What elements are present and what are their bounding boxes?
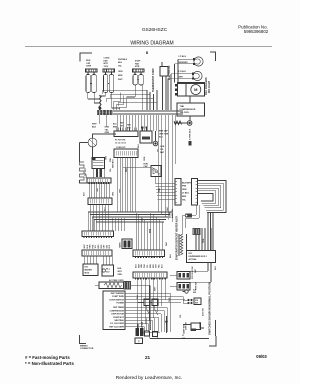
svg-text:ORN: ORN (182, 189, 187, 191)
svg-text:ORN: ORN (169, 297, 171, 302)
svg-text:5995396802: 5995396802 (244, 29, 269, 34)
svg-text:CAP: CAP (86, 62, 91, 65)
svg-text:SW: SW (182, 338, 185, 340)
svg-text:FRZ LIGHT: FRZ LIGHT (209, 80, 211, 93)
svg-text:WHT: WHT (118, 79, 123, 81)
svg-text:DEF THERMO: DEF THERMO (111, 293, 125, 295)
svg-text:GRN: GRN (160, 146, 165, 148)
svg-text:# = Fast-moving Parts: # = Fast-moving Parts (25, 355, 70, 360)
svg-text:09/03: 09/03 (256, 354, 267, 359)
svg-text:TAN: TAN (96, 188, 99, 192)
svg-text:ADAPTIVE DEF: ADAPTIVE DEF (168, 65, 171, 80)
svg-text:MTR: MTR (104, 63, 109, 65)
svg-text:COND: COND (104, 58, 110, 60)
svg-text:POWER: POWER (116, 303, 124, 305)
svg-text:RED: RED (126, 167, 128, 172)
svg-text:BRN: BRN (150, 228, 152, 233)
svg-text:THE: THE (180, 106, 185, 108)
svg-text:ACTUAL: ACTUAL (189, 258, 198, 261)
svg-text:AJAR SW: AJAR SW (171, 209, 174, 218)
svg-text:ORN: ORN (203, 238, 205, 243)
svg-text:NEUTRAL: NEUTRAL (114, 319, 124, 322)
svg-text:COMPRESSOR: COMPRESSOR (180, 109, 196, 111)
svg-text:WHT/BLK: WHT/BLK (112, 159, 114, 168)
svg-text:RUN: RUN (86, 60, 91, 62)
svg-text:P1 P2 P3 P4: P1 P2 P3 P4 (115, 138, 125, 141)
svg-text:DISP MOTOR: DISP MOTOR (111, 314, 124, 316)
svg-text:FAN: FAN (104, 59, 109, 62)
svg-text:SWITCHES SHOWN IN NORMAL POSIT: SWITCHES SHOWN IN NORMAL POSITION (208, 282, 212, 335)
svg-text:ORN: ORN (106, 155, 108, 160)
svg-text:RED: RED (182, 196, 187, 198)
svg-text:?: ? (138, 340, 140, 344)
svg-text:MTR: MTR (135, 66, 140, 68)
svg-text:BLU: BLU (105, 206, 107, 211)
svg-text:GS26HSZC: GS26HSZC (142, 27, 168, 33)
svg-text:SW: SW (195, 303, 198, 305)
svg-text:CONNECTOR: CONNECTOR (80, 348, 94, 350)
svg-text:BLK: BLK (215, 265, 217, 270)
svg-text:ORN: ORN (113, 191, 115, 196)
svg-text:Rendered by LeadVenture, Inc.: Rendered by LeadVenture, Inc. (116, 375, 182, 381)
svg-text:DOOR SWITCH: DOOR SWITCH (110, 299, 125, 301)
svg-text:BRN: BRN (98, 244, 100, 249)
svg-text:BLK/WHT: BLK/WHT (182, 182, 192, 184)
svg-text:BLK: BLK (137, 294, 139, 299)
svg-text:C1 C2 C3 C4: C1 C2 C3 C4 (115, 142, 126, 145)
svg-text:WHT/BLK: WHT/BLK (118, 59, 128, 61)
svg-text:PNK: PNK (159, 187, 161, 192)
svg-text:GRN: GRN (105, 127, 110, 129)
svg-text:ORN: ORN (178, 77, 183, 79)
svg-text:LT. BLU: LT. BLU (179, 56, 187, 58)
svg-text:F.F. CLD DEFR: F.F. CLD DEFR (110, 323, 124, 325)
svg-text:BRN: BRN (118, 75, 123, 77)
svg-text:PUMP MOT: PUMP MOT (113, 317, 125, 319)
svg-text:BLK: BLK (118, 268, 123, 270)
svg-text:TILT SW: TILT SW (142, 322, 144, 329)
svg-text:BLK: BLK (170, 253, 172, 258)
svg-text:AUG SW: AUG SW (202, 308, 205, 316)
svg-text:21: 21 (145, 355, 151, 360)
svg-text:MOD: MOD (85, 273, 90, 275)
svg-text:CONN 12P: CONN 12P (116, 147, 126, 149)
svg-text:PNK: PNK (182, 186, 187, 188)
svg-text:LT BLU: LT BLU (179, 71, 187, 73)
svg-text:ADJ. ROLLERS: ADJ. ROLLERS (205, 77, 208, 95)
svg-text:LAMP SW: LAMP SW (183, 325, 186, 334)
svg-text:GRN: GRN (118, 274, 123, 276)
svg-text:BRN: BRN (150, 263, 152, 268)
svg-text:DOOR SW: DOOR SW (150, 321, 152, 330)
svg-text:115V: 115V (104, 66, 109, 68)
svg-text:EVAP: EVAP (135, 60, 141, 63)
svg-text:HARN: HARN (119, 242, 122, 248)
svg-text:REF CLD DEFR: REF CLD DEFR (109, 326, 124, 328)
svg-text:PNK: PNK (142, 217, 144, 222)
svg-text:FAN: FAN (135, 62, 140, 65)
svg-text:ORN: ORN (105, 132, 110, 134)
svg-text:WIRING DIAGRAM: WIRING DIAGRAM (130, 41, 173, 47)
svg-text:LT BLU: LT BLU (182, 193, 190, 195)
svg-text:DISP SW: DISP SW (186, 322, 188, 330)
svg-text:* = Non-Illustrated Parts: * = Non-Illustrated Parts (25, 361, 74, 366)
svg-text:ICE DOOR SW: ICE DOOR SW (192, 266, 194, 279)
svg-text:AC PWR CORD: AC PWR CORD (109, 279, 124, 282)
svg-text:ORN/RED: ORN/RED (178, 62, 188, 64)
svg-text:BLK: BLK (118, 62, 123, 64)
svg-text:COMP THRU: COMP THRU (112, 296, 125, 298)
svg-text:CAP: CAP (144, 165, 149, 168)
svg-text:WHT: WHT (92, 124, 97, 126)
svg-text:ORN: ORN (90, 244, 92, 249)
svg-text:COMPRESSOR: COMPRESSOR (110, 310, 125, 312)
svg-text:S-PNK BLK: S-PNK BLK (190, 128, 192, 140)
svg-text:BLK: BLK (92, 126, 97, 128)
svg-text:DISPENSER MOD 1: DISPENSER MOD 1 (189, 256, 208, 258)
svg-text:EVAPORATOR DEFROST HEATER ASSY: EVAPORATOR DEFROST HEATER ASSY (176, 215, 179, 260)
svg-text:10MF: 10MF (86, 66, 92, 68)
svg-text:ORN: ORN (144, 156, 146, 161)
svg-text:BLK: BLK (159, 137, 164, 139)
svg-text:TMR: TMR (164, 134, 169, 136)
svg-text:ORN: ORN (118, 71, 123, 73)
svg-text:DEF TIMER: DEF TIMER (113, 307, 124, 309)
svg-text:MAKER: MAKER (85, 269, 93, 272)
svg-text:SW: SW (193, 292, 196, 294)
svg-text:ORN: ORN (141, 263, 143, 268)
svg-text:BLK: BLK (138, 143, 140, 148)
svg-text:THERMOSTAT CONT.: THERMOSTAT CONT. (152, 68, 155, 92)
